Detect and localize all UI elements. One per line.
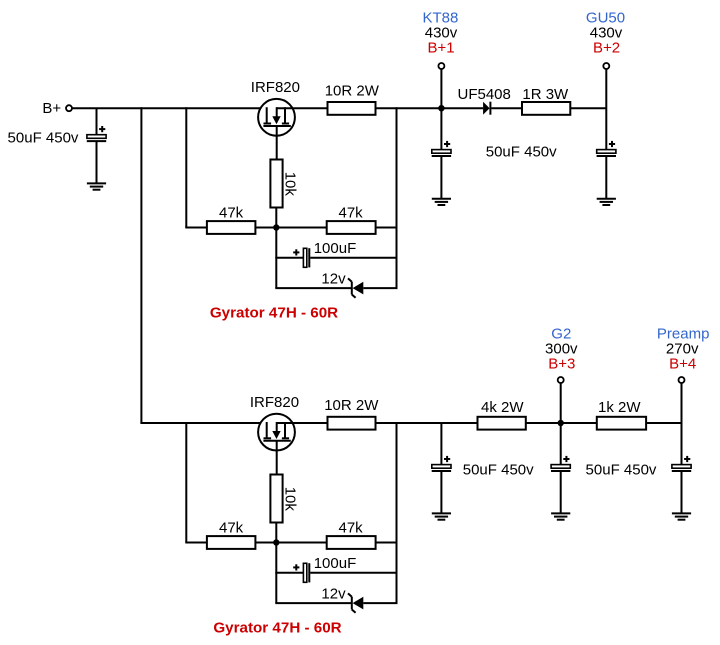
svg-text:47k: 47k bbox=[339, 520, 364, 537]
wire C1 to ground bbox=[96, 142, 98, 184]
svg-text:Gyrator 47H - 60R: Gyrator 47H - 60R bbox=[213, 620, 341, 637]
wire C5 to ground bbox=[440, 472, 442, 514]
svg-text:47k: 47k bbox=[339, 205, 364, 222]
label 50uF 450v (C3 C4) bbox=[486, 144, 557, 161]
label 10k (R4) bbox=[282, 172, 299, 197]
node gate Q1 bbox=[273, 224, 279, 230]
label 47k (R7) bbox=[219, 520, 244, 537]
svg-text:10R 2W: 10R 2W bbox=[325, 82, 380, 99]
svg-text:B+1: B+1 bbox=[427, 40, 454, 57]
label 12v (D3) bbox=[321, 585, 346, 602]
svg-text:10R 2W: 10R 2W bbox=[324, 397, 379, 414]
wire Q2 source to R6 bbox=[276, 422, 327, 424]
wire B+ rail down to lower section bbox=[140, 107, 142, 423]
label UF5408 (D1) bbox=[458, 86, 511, 103]
ground (C3) bbox=[432, 199, 451, 205]
ground (C7) bbox=[551, 513, 570, 519]
wire rail branch to R2 bbox=[185, 227, 207, 229]
label GU50 bbox=[586, 9, 625, 26]
wire R7 to gate node bbox=[255, 542, 276, 544]
wire lower rail to Q2 drain bbox=[140, 422, 266, 424]
label 1k 2W (R11) bbox=[598, 399, 641, 416]
wire branch to C1 bbox=[96, 108, 98, 135]
capacitor C8 50uF 450v bbox=[672, 456, 691, 471]
label Preamp bbox=[657, 325, 710, 342]
svg-text:100uF: 100uF bbox=[314, 240, 357, 257]
wire C2 to right vertical bbox=[310, 257, 396, 259]
wire R1 to node B+1 bbox=[376, 107, 442, 109]
wire R2 to gate node bbox=[255, 227, 276, 229]
label 50uF 450v (C1) bbox=[8, 129, 79, 146]
wire B+ to Q1 drain bbox=[72, 107, 267, 109]
svg-text:B+2: B+2 bbox=[593, 40, 620, 57]
label 10R 2W (R1) bbox=[325, 82, 380, 99]
label 47k (R8) bbox=[339, 520, 364, 537]
wire D3 to right vertical bbox=[363, 602, 397, 604]
wire gate lead Q2 to R9 10k bbox=[276, 441, 278, 475]
resistor R2 47k bbox=[207, 221, 256, 234]
resistor R10 4k 2W bbox=[478, 417, 526, 430]
capacitor C6 100uF bbox=[293, 563, 309, 582]
wire node B+3 to R11 bbox=[561, 422, 597, 424]
resistor R1 10R 2W bbox=[328, 102, 376, 115]
transistor Q2 IRF820 (N-MOSFET) bbox=[258, 414, 295, 451]
wire gate node down (lower) bbox=[275, 543, 277, 604]
svg-text:4k 2W: 4k 2W bbox=[481, 399, 524, 416]
label B+1 bbox=[427, 40, 454, 57]
capacitor C4 50uF 450v bbox=[597, 141, 616, 156]
diode D1 UF5408 bbox=[483, 102, 490, 115]
svg-text:50uF 450v: 50uF 450v bbox=[586, 461, 657, 478]
label 4k 2W (R10) bbox=[481, 399, 524, 416]
label B+4 bbox=[669, 356, 696, 373]
label 270v (Preamp) bbox=[666, 340, 699, 357]
label 47k (R3) bbox=[339, 205, 364, 222]
wire node B+1 to D1 bbox=[441, 107, 483, 109]
label 430v (KT88) bbox=[425, 24, 458, 41]
wire branch to R2 47k bbox=[185, 107, 187, 227]
svg-text:10k: 10k bbox=[282, 487, 299, 512]
wire C5 tap to R10 bbox=[441, 422, 477, 424]
svg-text:12v: 12v bbox=[321, 585, 346, 602]
ground (C8) bbox=[672, 513, 691, 519]
terminal G2 B+3 bbox=[558, 377, 564, 383]
capacitor C3 50uF 450v bbox=[432, 141, 451, 156]
svg-text:IRF820: IRF820 bbox=[250, 394, 299, 411]
zener diode D3 12v bbox=[348, 593, 363, 612]
label G2 bbox=[551, 325, 571, 342]
wire R3 to right vertical bbox=[376, 227, 397, 229]
label 47k (R2) bbox=[219, 205, 244, 222]
label 100uF (C6) bbox=[314, 555, 357, 572]
capacitor C1 50uF 450v bbox=[87, 126, 106, 141]
resistor R9 10k bbox=[270, 475, 282, 523]
wire rail branch to R7 bbox=[185, 542, 207, 544]
capacitor C2 100uF bbox=[293, 248, 309, 267]
label 300v (G2) bbox=[545, 340, 578, 357]
ground (C1) bbox=[87, 183, 106, 189]
svg-text:12v: 12v bbox=[321, 270, 346, 287]
wire Preamp node to C8 bbox=[681, 422, 683, 465]
resistor R3 47k bbox=[327, 221, 376, 234]
svg-text:47k: 47k bbox=[219, 520, 244, 537]
svg-text:50uF 450v: 50uF 450v bbox=[8, 129, 79, 146]
label 10k (R9) bbox=[282, 487, 299, 512]
wire G2 terminal to node bbox=[560, 383, 562, 423]
wire D1 to R5 bbox=[491, 107, 522, 109]
terminal B+ bbox=[66, 105, 72, 111]
wire right feedback vertical (lower) bbox=[396, 422, 398, 603]
svg-text:B+4: B+4 bbox=[669, 356, 696, 373]
ground (C4) bbox=[597, 199, 616, 205]
wire right feedback vertical bbox=[396, 107, 398, 288]
wire gate node down bbox=[275, 228, 277, 289]
svg-text:UF5408: UF5408 bbox=[458, 86, 511, 103]
wire node B+1 to C3 bbox=[440, 108, 442, 149]
wire branch to R7 47k bbox=[185, 422, 187, 543]
wire Q1 source to R1 bbox=[276, 107, 327, 109]
svg-text:IRF820: IRF820 bbox=[251, 79, 300, 96]
wire C3 to ground bbox=[440, 157, 442, 199]
resistor R8 47k bbox=[327, 536, 376, 549]
wire gate node to R3 bbox=[276, 227, 326, 229]
wire R6 to C5 tap bbox=[376, 422, 442, 424]
label B+3 bbox=[548, 356, 575, 373]
wire node to C6 bbox=[275, 572, 303, 574]
wire C4 to ground bbox=[605, 157, 607, 199]
terminal Preamp B+4 bbox=[679, 377, 685, 383]
wire down to R2 bbox=[185, 227, 187, 228]
wire KT88 terminal to node bbox=[440, 69, 442, 108]
label B+2 bbox=[593, 40, 620, 57]
wire node to C2 bbox=[275, 257, 303, 259]
terminal GU50 B+2 bbox=[603, 63, 609, 69]
wire node to D2 zener bbox=[275, 287, 352, 289]
svg-text:47k: 47k bbox=[219, 205, 244, 222]
resistor R5 1R 3W bbox=[522, 102, 570, 115]
capacitor C5 50uF 450v bbox=[432, 456, 451, 471]
wire D2 to right vertical bbox=[363, 287, 397, 289]
label B+ bbox=[42, 100, 61, 117]
svg-text:1k 2W: 1k 2W bbox=[598, 399, 641, 416]
wire GU50 terminal to C4 bbox=[605, 69, 607, 150]
svg-text:50uF 450v: 50uF 450v bbox=[463, 461, 534, 478]
wire gate lead Q1 to R4 10k bbox=[276, 126, 278, 160]
svg-text:B+3: B+3 bbox=[548, 356, 575, 373]
svg-text:1R 3W: 1R 3W bbox=[522, 86, 569, 103]
wire node to D3 zener bbox=[275, 602, 352, 604]
wire R4 to gate node bbox=[275, 208, 277, 228]
terminal KT88 B+1 bbox=[438, 63, 444, 69]
label 50uF 450v (C8) bbox=[586, 461, 657, 478]
label 100uF (C2) bbox=[314, 240, 357, 257]
wire tap down to C5 bbox=[440, 423, 442, 465]
label Gyrator 47H - 60R (lower) bbox=[213, 620, 341, 637]
label 430v (GU50) bbox=[590, 24, 623, 41]
wire Preamp terminal to rail bbox=[681, 383, 683, 423]
resistor R7 47k bbox=[207, 536, 256, 549]
node B+3 bbox=[558, 420, 564, 426]
wire node B+3 to C7 bbox=[560, 423, 562, 465]
wire C7 to ground bbox=[560, 472, 562, 514]
wire R11 to Preamp node bbox=[646, 422, 681, 424]
wire R10 to node B+3 bbox=[526, 422, 561, 424]
capacitor C7 50uF 450v bbox=[551, 456, 570, 471]
resistor R11 1k 2W bbox=[597, 417, 646, 430]
svg-text:10k: 10k bbox=[282, 172, 299, 197]
wire C6 to right vertical bbox=[310, 572, 396, 574]
node gate Q2 bbox=[273, 539, 279, 545]
label KT88 bbox=[422, 9, 458, 26]
svg-text:100uF: 100uF bbox=[314, 555, 357, 572]
wire gate node to R8 bbox=[276, 542, 326, 544]
label IRF820 (Q2) bbox=[250, 394, 299, 411]
wire R5 to GU50 node bbox=[570, 107, 606, 109]
wire R8 to right vertical bbox=[376, 542, 397, 544]
label IRF820 (Q1) bbox=[251, 79, 300, 96]
ground (C5) bbox=[432, 513, 451, 519]
label 10R 2W (R6) bbox=[324, 397, 379, 414]
svg-text:50uF 450v: 50uF 450v bbox=[486, 144, 557, 161]
label 12v (D2) bbox=[321, 270, 346, 287]
svg-text:Gyrator 47H - 60R: Gyrator 47H - 60R bbox=[210, 305, 338, 322]
label 50uF 450v (C5 C7) bbox=[463, 461, 534, 478]
wire R9 to gate node bbox=[275, 523, 277, 543]
node B+1 bbox=[438, 105, 444, 111]
transistor Q1 IRF820 (N-MOSFET) bbox=[258, 99, 295, 136]
zener diode D2 12v bbox=[348, 278, 363, 297]
svg-text:B+: B+ bbox=[42, 100, 61, 117]
label Gyrator 47H - 60R (upper) bbox=[210, 305, 338, 322]
resistor R6 10R 2W bbox=[328, 417, 376, 430]
label 1R 3W (R5) bbox=[522, 86, 569, 103]
wire C8 to ground bbox=[681, 472, 683, 514]
resistor R4 10k bbox=[270, 160, 282, 208]
